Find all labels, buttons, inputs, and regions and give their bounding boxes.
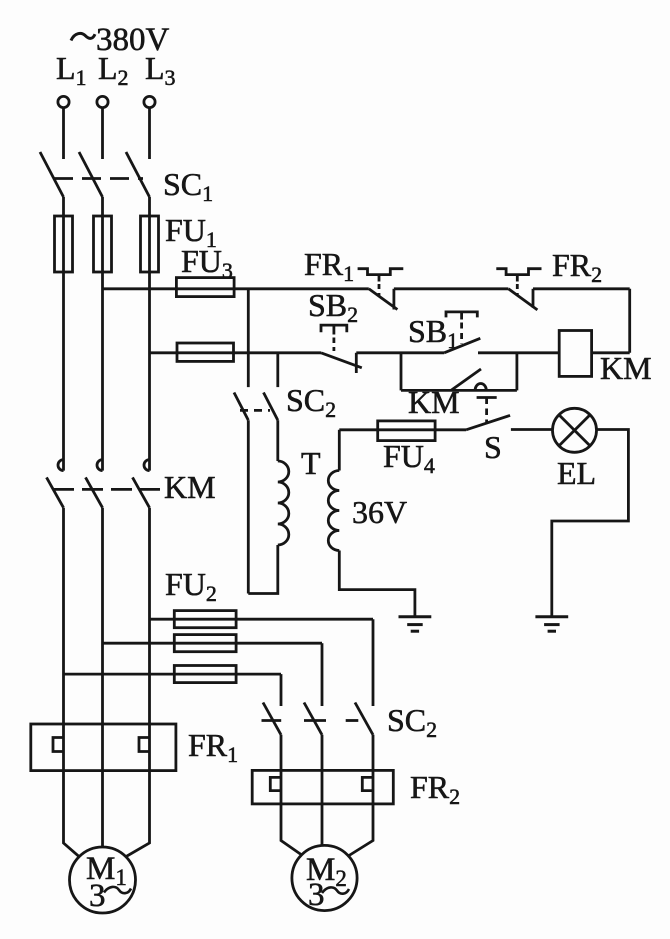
svg-text:FR1: FR1 (304, 246, 354, 286)
wire L3 drop (148, 108, 151, 159)
wire FU2 branch 3 (from L1) (64, 673, 282, 676)
relay contact FR1 (NC, thermal) (358, 269, 404, 310)
contactor coil KM label (600, 350, 652, 386)
wire S to lamp EL (511, 428, 553, 431)
contactor KM main link (dashed) (53, 488, 160, 491)
transformer T secondary lead (top) (338, 430, 341, 471)
fuse FU3 (176, 278, 234, 297)
fuse FU4 (378, 421, 435, 441)
switch S actuator dashed stem (485, 398, 488, 423)
relay contact FR2 (NC, thermal) (496, 269, 541, 310)
svg-text:3: 3 (89, 878, 106, 914)
fuse FU1 pole 1 (55, 216, 73, 272)
svg-text:FU3: FU3 (181, 243, 233, 283)
switch S label (484, 429, 502, 465)
wire L2 SC1 to FU1 (101, 197, 104, 272)
wire EL to ground (right loop) (552, 430, 629, 616)
wire L1 drop (62, 108, 65, 159)
switch SC1 mechanical link (dashed) (54, 177, 143, 180)
switch SC2 (control) left pole: riser from control line 1 (247, 289, 250, 387)
contactor KM main blade 2 (86, 477, 103, 507)
wire control line 1 (from L2 tap) (103, 287, 369, 290)
svg-text:T: T (301, 445, 321, 481)
switch SC2 (motor) blade 3 (355, 703, 373, 735)
wire drop to SC2 motor switch pole 3 (372, 619, 375, 706)
wire L2 KM to FR1 and motor (101, 508, 104, 847)
terminal L3 (144, 96, 155, 107)
svg-text:FR2: FR2 (552, 247, 602, 287)
wire SC2 motor pole1 to FR2/M2 (281, 735, 303, 856)
contact KM auxiliary label (408, 384, 460, 420)
pushbutton SB2 label (308, 287, 358, 327)
contactor KM main blade 3 (133, 477, 150, 507)
switch SC2 (motor) label (387, 702, 437, 742)
svg-text:SC1: SC1 (163, 166, 213, 206)
svg-text:36V: 36V (352, 494, 407, 530)
wire FR1 to FR2 (394, 287, 509, 290)
transformer T primary lead (276, 420, 279, 461)
contact KM auxiliary (NO) blade (451, 369, 481, 390)
fuse FU4 label (383, 438, 435, 478)
motor M1 circle (70, 847, 136, 913)
fuse FU2 element 3 (174, 666, 236, 683)
contactor KM main contact pole 3 arc (144, 460, 149, 471)
relay contact FR2 label (552, 247, 602, 287)
thermal relay FR2 heater 2 (362, 777, 373, 790)
svg-text:KM: KM (408, 384, 460, 420)
terminal L1 (58, 96, 69, 107)
svg-text:KM: KM (600, 350, 652, 386)
pushbutton SB1 label (408, 313, 458, 353)
switch SC2 (motor) blade 1 (263, 703, 281, 735)
wire self-hold branch bottom (401, 389, 517, 392)
ground (transformer secondary) (399, 617, 432, 631)
wire control line 2 (from L3 tap) (150, 351, 322, 354)
thermal relay FR1 heater 1 (53, 738, 64, 752)
switch SC1 pole 1 blade (40, 152, 64, 197)
fuse FU1 pole 2 (94, 216, 112, 272)
wire L3 bus down to KM (148, 272, 151, 471)
wire drop to SC2 motor switch pole 2 (321, 643, 324, 706)
switch S actuator bar (477, 396, 497, 399)
thermal relay FR2 box (252, 770, 393, 804)
thermal relay FR1 label (188, 727, 238, 767)
svg-text:L3: L3 (145, 50, 176, 90)
wire SC2 motor pole2 to FR2/M2 (321, 735, 324, 846)
thermal relay FR2 label (410, 769, 460, 809)
wire L3 KM to FR1 and motor (126, 508, 150, 857)
node L3 label (145, 50, 176, 90)
svg-text:3: 3 (308, 877, 325, 913)
switch SC2 (control) link (dashed) (240, 409, 270, 412)
fuse FU1 label (165, 212, 217, 252)
fuse FU3b (second control fuse) (177, 343, 234, 361)
switch SC2 (control) right blade (264, 393, 278, 421)
contactor KM main blade 1 (47, 477, 64, 507)
wire L1 bus down to KM (62, 272, 65, 471)
svg-text:SC2: SC2 (387, 702, 437, 742)
thermal relay FR1 heater 2 (139, 738, 150, 752)
node ~ (AC) symbol (71, 33, 95, 40)
svg-text:FU4: FU4 (383, 438, 435, 478)
wire FR2 to right corner (533, 287, 630, 290)
terminal L2 (97, 96, 108, 107)
contactor KM main contact pole 1 arc (58, 460, 63, 471)
motor M2 text (306, 852, 347, 913)
lamp EL label (557, 455, 596, 491)
motor M2 tilde (322, 887, 349, 893)
wire KM coil to right riser (592, 351, 630, 354)
motor M1 text (86, 851, 127, 914)
switch SC2 (motor) blade 2 (304, 703, 322, 735)
fuse FU2 element 1 (174, 611, 236, 628)
wire SC2 motor pole3 to FR2/M2 (349, 735, 373, 856)
wire right side drop to KM coil (628, 289, 631, 353)
switch SC1 pole 3 blade (126, 152, 150, 197)
svg-text:FU2: FU2 (165, 566, 217, 606)
svg-text:EL: EL (557, 455, 596, 491)
transformer T primary winding (278, 461, 289, 545)
svg-text:SC2: SC2 (286, 382, 336, 422)
thermal relay FR2 heater 1 (270, 777, 281, 790)
node L1 label (56, 50, 87, 90)
contactor KM main label (164, 469, 216, 505)
node ~380V label (96, 22, 170, 58)
switch S actuator arc (475, 384, 486, 391)
motor M1 tilde (104, 887, 131, 893)
transformer T primary bottom loop (248, 545, 277, 594)
switch SC2 (control) right pole: riser from control line 2 (276, 353, 279, 387)
contactor KM main contact pole 2 arc (97, 460, 103, 471)
wire L2 drop (101, 108, 104, 159)
lamp EL (553, 408, 597, 452)
node L2 label (98, 50, 129, 90)
svg-text:SB1: SB1 (408, 313, 458, 353)
svg-text:S: S (484, 429, 502, 465)
fuse FU1 pole 3 (141, 216, 159, 272)
svg-text:FR1: FR1 (188, 727, 238, 767)
wire secondary to ground (339, 551, 415, 616)
fuse FU2 element 2 (174, 635, 236, 652)
wire L2 bus down to KM (101, 272, 104, 471)
svg-text:L1: L1 (56, 50, 87, 90)
wire FU2 branch 1 (from L3) (150, 618, 374, 621)
wire drop to SC2 motor switch pole 1 (280, 674, 283, 706)
motor M2 circle (292, 845, 357, 910)
wire transformer secondary to FU4 to S (339, 428, 466, 431)
svg-text:KM: KM (164, 469, 216, 505)
wire L1 KM to FR1 and motor (64, 508, 80, 857)
contactor coil KM (559, 331, 591, 377)
switch SC2 (control) label (286, 382, 336, 422)
switch SC2 (control) left blade (234, 393, 248, 421)
wire self-hold branch left leg (400, 353, 403, 391)
switch SC2 (control) left pole drop (247, 420, 250, 593)
wire L1 SC1 to FU1 (62, 197, 65, 272)
switch SC1 pole 2 blade (79, 152, 103, 197)
transformer T label (301, 445, 321, 481)
switch SC2 (motor) link (dashed) (262, 719, 359, 722)
wire FU2 branch 2 (from L2) (103, 642, 323, 645)
wire SB1 to KM coil (478, 351, 559, 354)
transformer T secondary winding (328, 471, 339, 551)
thermal relay FR1 box (31, 724, 176, 771)
relay contact FR1 label (304, 246, 354, 286)
switch S blade (466, 415, 510, 429)
ground (lamp circuit) (535, 617, 568, 631)
wire L3 SC1 to FU1 (148, 197, 151, 272)
wire self-hold branch right leg (516, 353, 519, 391)
wire SB2 to SB1 (356, 351, 444, 354)
pushbutton SB2 (NC) (321, 325, 362, 373)
fuse FU3 label (181, 243, 233, 283)
fuse FU2 label (165, 566, 217, 606)
svg-text:FR2: FR2 (410, 769, 460, 809)
transformer T 36V label (352, 494, 407, 530)
pushbutton SB1 (NO) (444, 312, 480, 353)
switch SC1 label (163, 166, 213, 206)
svg-text:SB2: SB2 (308, 287, 358, 327)
